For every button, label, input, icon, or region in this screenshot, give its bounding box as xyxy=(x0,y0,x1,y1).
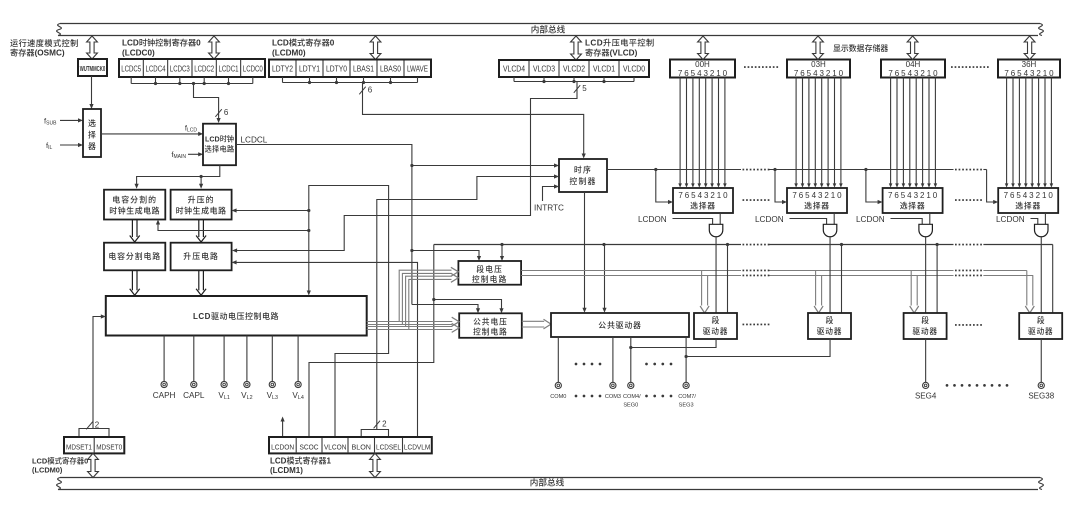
svg-text:2: 2 xyxy=(1036,191,1041,200)
svg-text:4: 4 xyxy=(698,191,703,200)
svg-text:5: 5 xyxy=(1017,69,1022,78)
svg-text:驱动器: 驱动器 xyxy=(703,326,728,336)
svg-text:0: 0 xyxy=(933,191,938,200)
terminal SEG38 xyxy=(1028,382,1054,400)
svg-text:LCDC2: LCDC2 xyxy=(194,65,214,74)
svg-text:(LCDM0): (LCDM0) xyxy=(32,466,63,475)
svg-text:6: 6 xyxy=(895,69,900,78)
wire BLON/LCDSEL 2-bit net to timing controller (slash 2) xyxy=(361,174,559,437)
hollow arrow 升压电路 to LCD drive voltage ctl xyxy=(196,270,206,295)
AND gate U2 (selector & LCDON) xyxy=(823,224,837,236)
wires 8 data bits 03H to selector xyxy=(794,78,842,188)
svg-text:3: 3 xyxy=(914,191,919,200)
wire enable from timing rail into selector #1 xyxy=(656,170,673,205)
svg-text:7: 7 xyxy=(792,191,797,200)
wire LCDCL branch to common voltage ctl xyxy=(412,305,480,314)
bus arrow to 00H xyxy=(698,36,709,60)
svg-text:3: 3 xyxy=(818,191,823,200)
wire segment driver #3 output to SEG4 xyxy=(925,339,927,382)
svg-text:0: 0 xyxy=(837,191,842,200)
bus arrow to 03H xyxy=(813,36,824,60)
label INTRTC xyxy=(534,204,564,213)
wire AND gate #2 output to segment driver xyxy=(829,237,831,313)
bus arrow to WUTMMCK0 xyxy=(87,36,98,59)
svg-text:升压电路: 升压电路 xyxy=(183,251,219,261)
bottom internal bus 内部总线 xyxy=(57,477,1044,490)
bus arrow MDSET to bottom bus xyxy=(88,453,99,477)
label LCDON #4 xyxy=(996,215,1025,224)
svg-text:LBAS1: LBAS1 xyxy=(353,65,374,74)
bus arrow to LCDM0 xyxy=(370,36,381,60)
svg-text:VLCD0: VLCD0 xyxy=(623,65,645,74)
svg-text:LCD驱动电压控制电路: LCD驱动电压控制电路 xyxy=(193,311,279,321)
wire LCDCL branch down to segment voltage ctl xyxy=(412,251,481,262)
svg-text:LCDON: LCDON xyxy=(996,215,1025,224)
label LCDON #1 xyxy=(638,215,667,224)
wire LCDVLM net: up from LCDM1 into 升压电路 xyxy=(232,260,418,437)
svg-text:5: 5 xyxy=(901,69,906,78)
label fSUB xyxy=(44,116,57,126)
svg-text:3: 3 xyxy=(1029,191,1034,200)
svg-text:2: 2 xyxy=(710,69,715,78)
wire LCDON #1 into AND gate xyxy=(673,219,713,225)
svg-text:LBAS0: LBAS0 xyxy=(380,65,401,74)
svg-text:SEG0: SEG0 xyxy=(623,402,638,408)
dots between COM4 and COM7 labels xyxy=(645,395,672,398)
svg-text:4: 4 xyxy=(812,191,817,200)
svg-text:6: 6 xyxy=(1010,191,1015,200)
svg-text:(LCDM0): (LCDM0) xyxy=(272,49,306,58)
dots between selector groups 3-4 xyxy=(955,199,982,201)
svg-text:VLCD3: VLCD3 xyxy=(533,65,555,74)
svg-text:5: 5 xyxy=(582,84,587,93)
svg-text:INTRTC: INTRTC xyxy=(534,204,564,213)
wire rail drop into segment driver #3 xyxy=(936,243,939,313)
svg-text:VLCON: VLCON xyxy=(324,442,347,451)
svg-text:公共驱动器: 公共驱动器 xyxy=(598,320,641,330)
svg-text:0: 0 xyxy=(1048,191,1053,200)
svg-text:7: 7 xyxy=(678,69,683,78)
svg-text:2: 2 xyxy=(920,69,925,78)
wire LCDON #2 into AND gate xyxy=(790,219,827,225)
svg-text:LCDC0: LCDC0 xyxy=(243,65,263,74)
register VLCD (bits VLCD4..VLCD0) xyxy=(499,60,649,77)
box 公共驱动器 (common driver) xyxy=(551,313,689,337)
svg-text:段: 段 xyxy=(1037,315,1045,325)
svg-text:7: 7 xyxy=(888,191,893,200)
svg-text:LCD模式寄存器0: LCD模式寄存器0 xyxy=(272,38,335,48)
svg-text:公共电压: 公共电压 xyxy=(473,316,508,326)
box 升压的时钟生成电路 (boost clock gen) xyxy=(171,190,232,220)
svg-text:内部总线: 内部总线 xyxy=(531,24,566,35)
svg-text:2: 2 xyxy=(382,420,387,429)
AND gate U1 (selector & LCDON) xyxy=(709,224,723,236)
box 段驱动器 #4 (segment driver) xyxy=(1019,313,1062,339)
svg-text:(LCDC0): (LCDC0) xyxy=(122,49,155,58)
label fLCD xyxy=(185,124,198,134)
label LCDON #3 xyxy=(856,215,885,224)
dots between COM0 and COM3 wires xyxy=(575,363,602,366)
wires 8 data bits 00H to selector xyxy=(678,78,726,188)
box 电容分割的时钟生成电路 (cap-split clock gen) xyxy=(104,190,165,220)
svg-text:VLCD1: VLCD1 xyxy=(593,65,615,74)
wire selector #4 output into AND gate xyxy=(1044,213,1046,224)
svg-text:5: 5 xyxy=(691,191,696,200)
svg-text:LCDC4: LCDC4 xyxy=(146,65,166,74)
svg-text:0: 0 xyxy=(723,69,728,78)
svg-text:LCDC1: LCDC1 xyxy=(219,65,239,74)
wire AND gate #3 output to segment driver xyxy=(925,237,927,313)
box 段驱动器 #2 (segment driver) xyxy=(808,313,851,339)
track hollow drop into segment driver #4 xyxy=(1025,271,1034,314)
svg-text:COM0: COM0 xyxy=(550,394,566,400)
box 段驱动器 #3 (segment driver) xyxy=(904,313,947,339)
wire VLCON net: up from LCDM1 to clock gen circuits xyxy=(307,186,389,438)
svg-text:6: 6 xyxy=(685,191,690,200)
svg-text:LCDC3: LCDC3 xyxy=(170,65,190,74)
svg-text:2: 2 xyxy=(95,421,100,430)
svg-text:6: 6 xyxy=(684,69,689,78)
register LCDC0 (bits LCDC5..LCDC0) xyxy=(119,59,265,77)
wire 5-bit from VLCD to boost circuit 升压电路 (slash 5) xyxy=(232,82,587,253)
svg-text:6: 6 xyxy=(1011,69,1016,78)
svg-text:4: 4 xyxy=(1023,191,1028,200)
svg-text:2: 2 xyxy=(824,191,829,200)
wire segment driver #4 output to SEG38 xyxy=(1040,339,1042,382)
box 段电压控制电路 (segment voltage control) xyxy=(458,261,521,285)
svg-text:36H: 36H xyxy=(1022,60,1037,69)
display data memory 03H xyxy=(787,60,850,78)
svg-text:驱动器: 驱动器 xyxy=(912,326,937,336)
wire SCOC branch to common voltage ctl xyxy=(434,300,504,314)
svg-text:电容分割的: 电容分割的 xyxy=(112,194,157,204)
svg-text:4: 4 xyxy=(1024,69,1029,78)
svg-text:7: 7 xyxy=(888,69,893,78)
box bit selector 选择器 #3 (76543210) xyxy=(883,188,943,213)
svg-text:SEG3: SEG3 xyxy=(679,402,694,408)
track LCD drive out B branch to 段电压控制电路 second (hollow wire) xyxy=(367,273,459,329)
svg-text:COM7/: COM7/ xyxy=(678,394,696,400)
register LCDM1 (LCDON SCOC VLCON BLON LCDSEL LCDVLM) xyxy=(269,437,432,453)
svg-text:00H: 00H xyxy=(695,60,710,69)
svg-text:LDTY2: LDTY2 xyxy=(272,65,293,74)
AND gate U4 (selector & LCDON) xyxy=(1035,224,1049,236)
dots between segment drivers 3-4 xyxy=(955,324,982,326)
box bit selector 选择器 #4 (76543210) xyxy=(998,188,1058,213)
svg-text:6: 6 xyxy=(368,86,373,95)
svg-text:2: 2 xyxy=(920,191,925,200)
wire LCD clock select output split to clock gen circuits xyxy=(135,165,220,189)
wire LCDCL branch to timing controller xyxy=(412,163,559,167)
box selector 选择器 (clock mux) xyxy=(83,109,101,157)
svg-text:0: 0 xyxy=(1049,69,1054,78)
svg-text:运行速度模式控制: 运行速度模式控制 xyxy=(10,38,79,48)
svg-text:0: 0 xyxy=(933,69,938,78)
label LCD模式寄存器0 (LCDM0) top xyxy=(272,38,335,58)
label LCD模式寄存器1 (LCDM1) xyxy=(270,455,331,475)
wire fMAIN into LCD clock select xyxy=(188,152,203,156)
svg-text:SEG38: SEG38 xyxy=(1028,392,1054,401)
dots between 00H and 03H xyxy=(744,66,778,68)
svg-text:显示数据存储器: 显示数据存储器 xyxy=(833,43,888,53)
wire 6-bit from LCDM0 to timing controller (slash 6) xyxy=(359,83,586,159)
dots between 04H and 36H xyxy=(951,66,989,68)
svg-text:LCD模式寄存器1: LCD模式寄存器1 xyxy=(270,455,331,465)
box LCD驱动电压控制电路 (LCD drive voltage control) xyxy=(106,296,367,336)
terminal COM0 xyxy=(550,382,566,400)
svg-text:CAPL: CAPL xyxy=(183,391,205,400)
svg-text:寄存器(VLCD): 寄存器(VLCD) xyxy=(585,48,638,58)
AND gate U3 (selector & LCDON) xyxy=(919,224,933,236)
svg-text:段: 段 xyxy=(826,315,834,325)
svg-text:驱动器: 驱动器 xyxy=(817,326,842,336)
svg-text:控制器: 控制器 xyxy=(569,176,596,186)
svg-text:5: 5 xyxy=(807,69,812,78)
svg-text:控制电路: 控制电路 xyxy=(473,326,508,336)
wire WUTMMCK0 to selector 选择器 xyxy=(89,76,93,109)
svg-text:1: 1 xyxy=(832,69,837,78)
svg-text:选择器: 选择器 xyxy=(1015,200,1041,210)
wire selector output fLCD to LCD clock select xyxy=(101,132,203,136)
dots between COM4 and COM7 wires xyxy=(645,363,672,366)
svg-text:LCD升压电平控制: LCD升压电平控制 xyxy=(585,38,655,48)
svg-text:寄存器(OSMC): 寄存器(OSMC) xyxy=(10,48,65,58)
terminal COM3 xyxy=(605,382,621,400)
label OSMC register 运行速度模式控制寄存器(OSMC) xyxy=(10,38,79,58)
label LCD升压电平控制寄存器(VLCD) xyxy=(585,38,655,58)
svg-text:5: 5 xyxy=(1016,191,1021,200)
wire VLCON branch up into 电容分割的时钟生成电路 xyxy=(156,220,309,231)
svg-text:升压的: 升压的 xyxy=(188,194,215,204)
label fIL xyxy=(46,141,53,151)
svg-text:选: 选 xyxy=(88,118,96,128)
wire SCOC rail branch down to common driver xyxy=(602,245,606,313)
top internal bus 内部总线 xyxy=(57,24,1044,36)
svg-text:2: 2 xyxy=(826,69,831,78)
wire COM0 output xyxy=(557,337,559,382)
terminal COM7/SEG3 xyxy=(678,382,696,408)
track LCD drive out A to 段电压控制电路 (hollow wire) xyxy=(367,267,459,324)
wire LCDC0 bit collector xyxy=(131,77,253,85)
svg-text:6: 6 xyxy=(224,108,229,117)
track hollow drop into segment driver #3 xyxy=(910,271,919,314)
label LCD时钟控制寄存器0 (LCDC0) xyxy=(122,38,201,58)
svg-text:7: 7 xyxy=(1004,69,1009,78)
svg-text:1: 1 xyxy=(927,69,932,78)
box LCD时钟选择电路 (LCD clock select circuit) xyxy=(203,124,236,166)
svg-text:内部总线: 内部总线 xyxy=(530,477,565,488)
wire rail drop into segment driver #1 xyxy=(726,243,729,313)
dots between segment drivers 1-2 xyxy=(743,324,770,326)
hollow arrow boost clock gen to 升压电路 xyxy=(196,220,206,243)
svg-text:驱动器: 驱动器 xyxy=(1028,326,1053,336)
svg-text:择: 择 xyxy=(88,130,96,140)
svg-text:VLCD2: VLCD2 xyxy=(563,65,585,74)
hollow arrow 电容分割电路 to LCD drive voltage ctl xyxy=(130,270,140,295)
wire COM4/SEG0 output xyxy=(629,337,632,382)
wire enable from timing rail into selector #2 xyxy=(775,170,787,205)
terminal VL2 xyxy=(241,336,252,402)
bus arrow to VLCD xyxy=(571,36,582,60)
svg-text:CAPH: CAPH xyxy=(153,391,176,400)
wires 8 data bits 04H to selector xyxy=(889,78,937,188)
wire MDSET 2-bit to LCD drive voltage ctl (slash 2) xyxy=(79,314,109,437)
track hollow drop into segment driver #2 xyxy=(814,271,823,314)
svg-text:7: 7 xyxy=(678,191,683,200)
svg-text:3: 3 xyxy=(704,191,709,200)
svg-text:选择器: 选择器 xyxy=(900,200,926,210)
svg-text:4: 4 xyxy=(697,69,702,78)
wire LCDCL from clock select: right then down (node LCDCL) xyxy=(236,145,414,305)
box bit selector 选择器 #2 (76543210) xyxy=(787,188,847,213)
svg-text:4: 4 xyxy=(813,69,818,78)
wire rail drop into segment driver #4 xyxy=(1052,245,1054,314)
label LCDCL xyxy=(241,135,268,144)
svg-text:7: 7 xyxy=(794,69,799,78)
svg-text:(LCDM1): (LCDM1) xyxy=(270,466,303,475)
wire 6-bit from LCDC0 to LCD clock select (slash 6) xyxy=(194,84,229,124)
wire VLCON branch into 升压的时钟生成电路 xyxy=(232,208,309,212)
wire enable from timing rail into selector #3 xyxy=(866,170,883,205)
display data memory 36H xyxy=(998,60,1060,78)
svg-text:选择器: 选择器 xyxy=(804,200,830,210)
svg-text:MDSET0: MDSET0 xyxy=(96,442,122,451)
svg-text:0: 0 xyxy=(839,69,844,78)
svg-text:LCD时钟: LCD时钟 xyxy=(205,135,234,144)
hollow arrow cap clock gen to 电容分割电路 xyxy=(130,220,140,243)
label 显示数据存储器 xyxy=(833,43,888,53)
dots between COM0 and COM3 labels xyxy=(575,395,602,398)
svg-text:03H: 03H xyxy=(811,60,826,69)
label LCDON #2 xyxy=(755,215,784,224)
svg-text:2: 2 xyxy=(710,191,715,200)
wire segment driver #1 output to SEG0 pin xyxy=(631,339,716,348)
svg-text:3: 3 xyxy=(914,69,919,78)
wire timing controller bottom to common driver xyxy=(582,192,586,313)
register WUTMMCK0 xyxy=(78,59,107,76)
svg-text:6: 6 xyxy=(800,69,805,78)
wire COM3 output xyxy=(612,337,614,382)
svg-text:选择电路: 选择电路 xyxy=(205,145,235,154)
svg-text:时钟生成电路: 时钟生成电路 xyxy=(109,205,160,215)
bus arrow LCDM1 to bottom bus xyxy=(370,453,381,477)
dots between SEG4 and SEG38 xyxy=(946,384,1009,387)
svg-text:时钟生成电路: 时钟生成电路 xyxy=(176,205,227,215)
svg-text:3: 3 xyxy=(1030,69,1035,78)
svg-text:1: 1 xyxy=(716,69,721,78)
terminal VL3 xyxy=(267,336,278,402)
svg-text:SCOC: SCOC xyxy=(300,442,319,451)
wire rail drop into segment driver #2 xyxy=(840,243,843,313)
svg-text:SEG4: SEG4 xyxy=(915,392,937,401)
register LCDM0 (bits LDTY2..LWAVE) xyxy=(269,60,431,78)
display data memory 00H xyxy=(670,60,735,78)
svg-text:1: 1 xyxy=(717,191,722,200)
svg-text:LCDC5: LCDC5 xyxy=(121,65,141,74)
svg-text:5: 5 xyxy=(691,69,696,78)
svg-text:时序: 时序 xyxy=(574,164,592,174)
svg-text:LCDVLM: LCDVLM xyxy=(404,442,431,451)
svg-text:LCD时钟控制寄存器0: LCD时钟控制寄存器0 xyxy=(122,38,201,48)
track 段电压控制电路 output rails (hollow pair) xyxy=(521,270,1033,277)
svg-text:LDTY0: LDTY0 xyxy=(326,65,347,74)
box 升压电路 (boost circuit) xyxy=(171,243,232,271)
svg-text:LDTY1: LDTY1 xyxy=(299,65,320,74)
box 段驱动器 #1 (segment driver) xyxy=(694,313,737,339)
svg-text:控制电路: 控制电路 xyxy=(472,274,508,284)
svg-text:4: 4 xyxy=(908,69,913,78)
svg-text:LCD模式寄存器0: LCD模式寄存器0 xyxy=(32,456,88,465)
box 电容分割电路 (capacitor split circuit) xyxy=(104,243,165,271)
terminal VL1 xyxy=(218,336,229,402)
svg-text:5: 5 xyxy=(901,191,906,200)
wire LCDM0 bit collector xyxy=(283,77,418,84)
svg-text:0: 0 xyxy=(723,191,728,200)
svg-text:LCDCL: LCDCL xyxy=(241,135,268,144)
bus arrow to 36H xyxy=(1024,36,1035,60)
label LCD模式寄存器0 (LCDM0) bottom xyxy=(32,456,88,474)
wire selector #2 output into AND gate xyxy=(833,213,835,224)
svg-text:LCDSEL: LCDSEL xyxy=(376,442,401,451)
wires 8 data bits 36H to selector xyxy=(1005,78,1053,188)
wire enable from timing rail into selector #4 xyxy=(987,170,999,205)
svg-text:2: 2 xyxy=(1036,69,1041,78)
svg-text:4: 4 xyxy=(907,191,912,200)
svg-text:COM3: COM3 xyxy=(605,394,621,400)
wire AND gate #1 output to segment driver xyxy=(715,237,717,313)
terminal CAPH xyxy=(153,336,176,400)
wire SCOC net: up from LCDM1 then rail y=245 xyxy=(309,243,1053,437)
display data memory 04H xyxy=(881,60,945,78)
wire VLCD bit collector xyxy=(514,77,634,83)
terminal COM4/SEG0 xyxy=(623,382,641,408)
svg-text:COM4/: COM4/ xyxy=(623,394,641,400)
svg-text:段: 段 xyxy=(921,315,929,325)
terminal CAPL xyxy=(183,336,205,400)
svg-text:6: 6 xyxy=(894,191,899,200)
svg-text:6: 6 xyxy=(799,191,804,200)
wire LCDON short up-arrow from LCDM1 xyxy=(281,417,285,438)
svg-text:MDSET1: MDSET1 xyxy=(66,442,92,451)
svg-text:LCDON: LCDON xyxy=(271,442,294,451)
svg-text:5: 5 xyxy=(805,191,810,200)
wire COM7/SEG3 output xyxy=(685,337,688,382)
svg-text:3: 3 xyxy=(819,69,824,78)
wire SCOC branch down to segment voltage ctl xyxy=(500,245,504,262)
register MDSET (MDSET1 MDSET0) xyxy=(64,437,124,453)
svg-text:7: 7 xyxy=(1004,191,1009,200)
track LCD drive out to 公共电压控制电路 (hollow wires) xyxy=(399,317,459,332)
wire segment driver #2 output to SEG3 pin xyxy=(686,339,830,357)
box 公共电压控制电路 (common voltage control) xyxy=(459,313,522,338)
svg-text:LWAVE: LWAVE xyxy=(407,65,428,74)
wire INTRTC into timing controller xyxy=(543,184,560,201)
svg-text:1: 1 xyxy=(1042,191,1047,200)
svg-text:LCDON: LCDON xyxy=(755,215,784,224)
svg-text:VLCD4: VLCD4 xyxy=(503,65,525,74)
svg-text:段电压: 段电压 xyxy=(476,264,503,274)
bus arrow to 04H xyxy=(907,36,918,60)
wire AND gate #4 output to segment driver xyxy=(1040,237,1042,313)
dots between selector groups 1-2 xyxy=(743,199,770,201)
svg-text:电容分割电路: 电容分割电路 xyxy=(108,251,161,261)
svg-text:段: 段 xyxy=(712,315,720,325)
terminal VL4 xyxy=(292,336,303,402)
svg-text:1: 1 xyxy=(1043,69,1048,78)
wire LCDON #4 into AND gate xyxy=(1031,219,1038,225)
svg-text:器: 器 xyxy=(88,142,96,151)
svg-text:04H: 04H xyxy=(906,60,921,69)
